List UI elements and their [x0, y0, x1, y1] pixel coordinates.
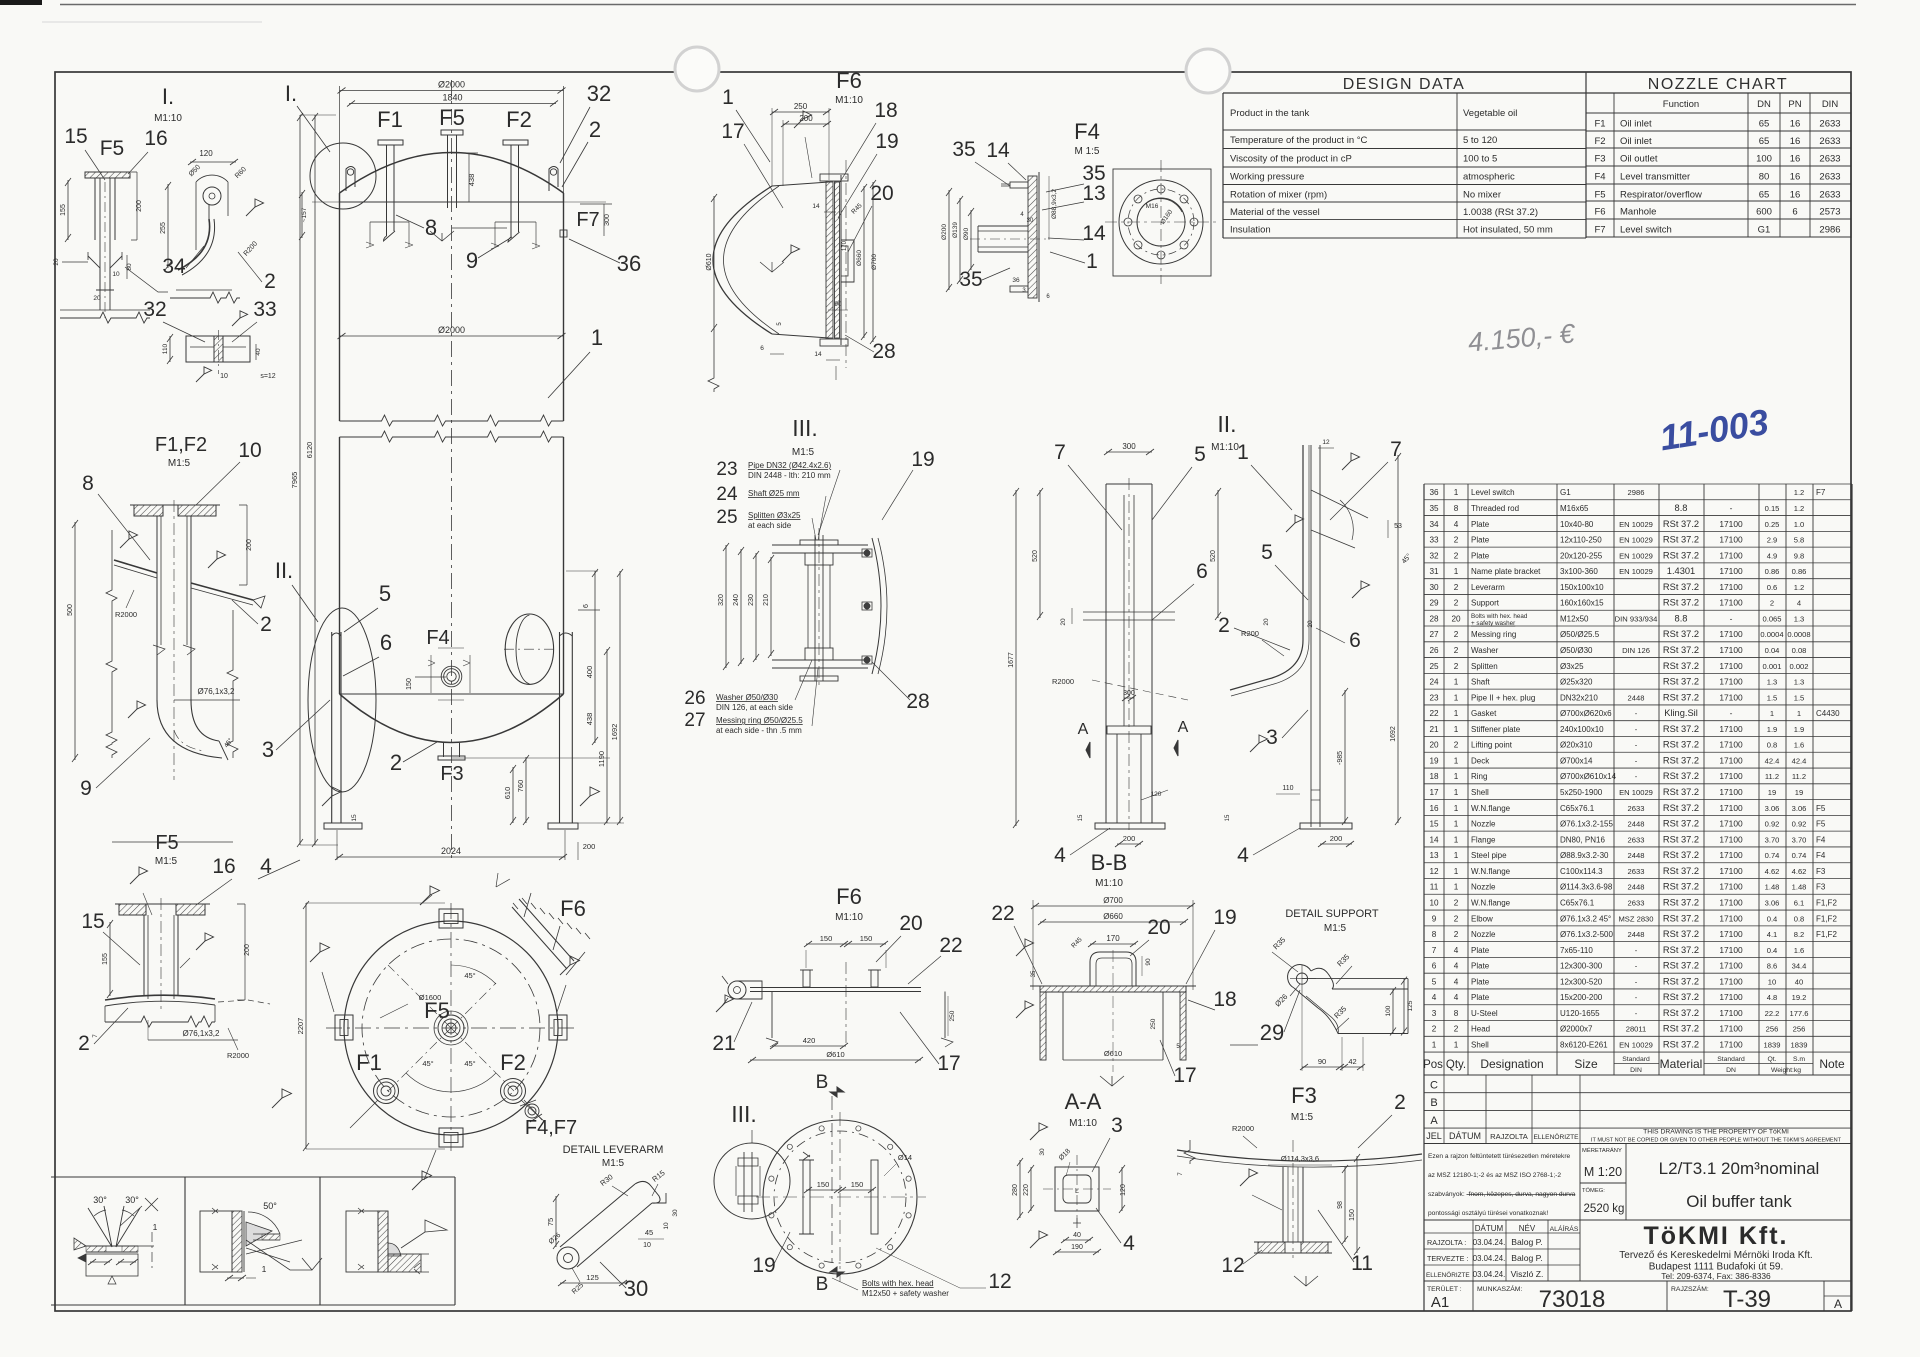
svg-text:7x65-110: 7x65-110 [1560, 946, 1593, 955]
svg-text:22.2: 22.2 [1765, 1009, 1780, 1018]
svg-text:Level transmitter: Level transmitter [1620, 172, 1690, 183]
nozzle F3 bottom [443, 743, 445, 757]
F6 head arc [713, 186, 772, 334]
svg-text:Messing ring Ø50/Ø25.5: Messing ring Ø50/Ø25.5 [716, 716, 803, 725]
svg-text:Plate: Plate [1471, 962, 1490, 971]
svg-text:4.150,- €: 4.150,- € [1467, 318, 1578, 357]
svg-text:2: 2 [264, 270, 276, 293]
nozzle F4 on shell center [447, 672, 456, 681]
top head [340, 153, 564, 194]
svg-text:19: 19 [1429, 756, 1439, 765]
svg-text:Ezen a rajzon feltüntetett tür: Ezen a rajzon feltüntetett türésezetlen … [1428, 1153, 1571, 1160]
svg-text:3: 3 [262, 737, 274, 762]
svg-text:-: - [1635, 756, 1638, 765]
svg-text:03.04.24.: 03.04.24. [1473, 1238, 1506, 1247]
svg-text:240: 240 [733, 594, 740, 606]
svg-text:4.62: 4.62 [1765, 867, 1780, 876]
svg-text:1.48: 1.48 [1765, 883, 1780, 892]
svg-text:17100: 17100 [1719, 913, 1743, 923]
svg-text:I.: I. [162, 84, 174, 109]
svg-text:4: 4 [1237, 844, 1249, 867]
svg-text:L2/T3.1 20m³nominal: L2/T3.1 20m³nominal [1659, 1159, 1820, 1178]
svg-text:90: 90 [1145, 958, 1152, 966]
svg-text:98: 98 [1337, 1201, 1344, 1209]
svg-text:17100: 17100 [1719, 976, 1743, 986]
svg-text:Washer Ø50/Ø30: Washer Ø50/Ø30 [716, 693, 779, 702]
svg-text:17100: 17100 [1719, 692, 1743, 702]
svg-text:20: 20 [1147, 916, 1170, 939]
svg-text:24: 24 [1429, 678, 1439, 687]
svg-text:Ø26: Ø26 [1273, 992, 1289, 1008]
svg-text:1.6: 1.6 [1794, 741, 1805, 750]
III assembly [814, 535, 816, 681]
svg-text:19: 19 [1768, 788, 1776, 797]
svg-text:-: - [1635, 962, 1638, 971]
svg-text:DETAIL SUPPORT: DETAIL SUPPORT [1285, 908, 1379, 920]
svg-text:23: 23 [716, 459, 737, 480]
svg-text:280: 280 [1012, 1184, 1019, 1196]
svg-text:RSt 37.2: RSt 37.2 [1663, 645, 1699, 655]
svg-text:25: 25 [716, 507, 737, 528]
svg-text:1: 1 [1432, 1041, 1437, 1050]
svg-text:03.04.24.: 03.04.24. [1473, 1270, 1506, 1279]
svg-text:R35: R35 [1271, 935, 1287, 951]
F1F2 pipe [156, 516, 158, 700]
svg-text:7965: 7965 [290, 472, 299, 489]
svg-text:73018: 73018 [1539, 1286, 1606, 1313]
svg-text:14: 14 [812, 203, 820, 210]
svg-text:110: 110 [1282, 785, 1293, 792]
svg-text:RSt 37.2: RSt 37.2 [1663, 724, 1699, 734]
svg-text:Level switch: Level switch [1471, 488, 1515, 497]
svg-text:4: 4 [1454, 993, 1459, 1002]
svg-text:8.8: 8.8 [1675, 503, 1688, 513]
svg-text:19: 19 [911, 448, 934, 471]
svg-text:B-B: B-B [1091, 850, 1128, 875]
svg-text:17100: 17100 [1719, 834, 1743, 844]
svg-text:400: 400 [585, 666, 594, 679]
svg-text:Ø610: Ø610 [826, 1050, 844, 1059]
svg-text:Temperature of the product in: Temperature of the product in °C [1230, 135, 1368, 146]
svg-text:3: 3 [1111, 1114, 1123, 1137]
svg-text:150: 150 [1349, 1209, 1356, 1221]
dim Ø2000 top [340, 90, 564, 92]
svg-text:17: 17 [721, 120, 744, 143]
svg-text:-: - [1635, 725, 1638, 734]
svg-text:2633: 2633 [1819, 136, 1840, 147]
svg-text:5: 5 [379, 581, 391, 606]
svg-text:F4: F4 [1074, 119, 1100, 144]
svg-text:ELLENÖRIZTE: ELLENÖRIZTE [1533, 1133, 1579, 1141]
svg-text:5: 5 [1194, 443, 1206, 466]
svg-text:28: 28 [906, 690, 929, 713]
svg-text:Plate: Plate [1471, 946, 1490, 955]
svg-text:Plate: Plate [1471, 977, 1490, 986]
svg-text:5: 5 [1432, 977, 1437, 986]
svg-text:Ø2000: Ø2000 [438, 325, 465, 335]
dim Ø2000 mid [340, 335, 564, 337]
svg-text:15: 15 [64, 125, 87, 148]
svg-text:IT MUST NOT BE COPIED OR GIVEN: IT MUST NOT BE COPIED OR GIVEN TO OTHER … [1591, 1138, 1842, 1144]
svg-text:150: 150 [860, 934, 873, 943]
F4 section [1028, 176, 1037, 298]
svg-text:Ø1600: Ø1600 [419, 993, 442, 1002]
svg-text:300: 300 [1123, 690, 1135, 697]
svg-text:F4,F7: F4,F7 [525, 1117, 577, 1139]
shell walls [339, 193, 341, 421]
A-A dims [1019, 1160, 1021, 1218]
svg-text:210: 210 [763, 594, 770, 606]
svg-text:Ø25x320: Ø25x320 [1560, 678, 1593, 687]
svg-text:250: 250 [1150, 1018, 1157, 1029]
svg-text:15: 15 [1225, 814, 1231, 821]
svg-text:33: 33 [1429, 536, 1439, 545]
svg-text:2986: 2986 [1628, 488, 1645, 497]
svg-text:6120: 6120 [305, 442, 314, 459]
svg-text:RSt 37.2: RSt 37.2 [1663, 692, 1699, 702]
svg-text:1: 1 [262, 1264, 267, 1274]
svg-text:Name plate bracket: Name plate bracket [1471, 567, 1541, 576]
svg-text:75: 75 [546, 1218, 555, 1226]
svg-text:Ø18: Ø18 [1058, 1148, 1072, 1162]
svg-text:11: 11 [1430, 883, 1439, 892]
svg-text:10: 10 [220, 373, 228, 380]
svg-text:1.3: 1.3 [1794, 678, 1805, 687]
svg-text:R15: R15 [650, 1168, 666, 1184]
svg-text:2633: 2633 [1819, 190, 1840, 201]
svg-text:Ring: Ring [1471, 772, 1487, 781]
svg-text:8x6120-E261: 8x6120-E261 [1560, 1041, 1608, 1050]
svg-text:Ø200: Ø200 [941, 224, 948, 240]
svg-text:17100: 17100 [1719, 677, 1743, 687]
svg-text:0.8: 0.8 [1767, 741, 1778, 750]
svg-text:65: 65 [1759, 119, 1770, 130]
svg-text:EN 10029: EN 10029 [1619, 788, 1653, 797]
svg-text:Stiffener plate: Stiffener plate [1471, 725, 1521, 734]
F3 nozzle [1282, 1167, 1284, 1242]
svg-text:s=12: s=12 [260, 373, 275, 380]
svg-text:2: 2 [589, 117, 601, 142]
svg-text:C65x76.1: C65x76.1 [1560, 804, 1595, 813]
svg-text:Ø76.1x3.2-155: Ø76.1x3.2-155 [1560, 820, 1613, 829]
svg-text:10: 10 [238, 439, 261, 462]
svg-text:2633: 2633 [1628, 898, 1645, 907]
svg-text:3: 3 [1022, 288, 1026, 294]
svg-text:10x40-80: 10x40-80 [1560, 520, 1594, 529]
F1F2 head plate slant [114, 560, 157, 573]
svg-text:III.: III. [731, 1101, 757, 1127]
svg-text:M16: M16 [1146, 203, 1159, 210]
svg-text:255: 255 [160, 222, 167, 234]
svg-text:438: 438 [467, 174, 476, 187]
svg-text:17: 17 [937, 1052, 960, 1075]
svg-text:9: 9 [1432, 914, 1437, 923]
svg-text:Flange: Flange [1471, 835, 1496, 844]
F3 flange [1258, 1242, 1285, 1253]
svg-text:2: 2 [260, 613, 272, 636]
svg-text:10: 10 [112, 271, 120, 278]
svg-text:DN80, PN16: DN80, PN16 [1560, 835, 1605, 844]
svg-text:R25: R25 [571, 1282, 585, 1296]
svg-text:Ø90: Ø90 [963, 227, 970, 240]
svg-text:1: 1 [1454, 788, 1459, 797]
svg-text:RSt 37.2: RSt 37.2 [1663, 519, 1699, 529]
svg-text:22: 22 [1429, 709, 1439, 718]
A-A plate [1055, 1167, 1099, 1211]
svg-text:RSt 37.2: RSt 37.2 [1663, 819, 1699, 829]
svg-text:13: 13 [1082, 182, 1105, 205]
svg-text:RSt 37.2: RSt 37.2 [1663, 976, 1699, 986]
left long dims 7965 6120 [299, 115, 301, 845]
svg-text:Splitten: Splitten [1471, 662, 1498, 671]
svg-text:17100: 17100 [1719, 882, 1743, 892]
svg-text:2: 2 [1454, 536, 1459, 545]
svg-text:36: 36 [1012, 277, 1020, 284]
svg-text:DN: DN [1757, 99, 1771, 110]
svg-text:2: 2 [1454, 741, 1459, 750]
svg-text:36: 36 [617, 251, 641, 276]
svg-text:ALÁÍRÁS: ALÁÍRÁS [1550, 1224, 1579, 1233]
svg-text:Ø50/Ø30: Ø50/Ø30 [1560, 646, 1593, 655]
plan view top circle [344, 921, 558, 1135]
svg-text:20: 20 [53, 258, 60, 266]
svg-text:Vegetable oil: Vegetable oil [1463, 108, 1517, 119]
svg-text:4.9: 4.9 [1767, 551, 1778, 560]
svg-text:Ø3x25: Ø3x25 [1560, 662, 1584, 671]
svg-text:15: 15 [351, 814, 358, 822]
svg-text:17100: 17100 [1719, 771, 1743, 781]
svg-text:F5: F5 [1816, 820, 1826, 829]
svg-text:4.8: 4.8 [1767, 993, 1778, 1002]
plan III deck bolt circle [763, 1120, 917, 1274]
svg-text:24: 24 [716, 484, 738, 505]
leg squares [439, 909, 463, 928]
svg-text:1.2: 1.2 [1794, 504, 1805, 513]
svg-text:30: 30 [1039, 1148, 1046, 1156]
svg-text:1: 1 [1454, 820, 1459, 829]
leg leader flags [420, 886, 440, 905]
svg-text:F6: F6 [836, 68, 862, 93]
pipe break [153, 645, 195, 655]
detail III callout circle [714, 1143, 790, 1219]
svg-text:1692: 1692 [610, 724, 619, 741]
svg-text:Ø660: Ø660 [856, 250, 863, 266]
svg-text:F3: F3 [1594, 154, 1605, 165]
svg-text:1839: 1839 [1764, 1041, 1781, 1050]
svg-text:RSt 37.2: RSt 37.2 [1663, 661, 1699, 671]
svg-text:2633: 2633 [1628, 804, 1645, 813]
svg-text:Messing ring: Messing ring [1471, 630, 1516, 639]
svg-text:760: 760 [516, 780, 525, 793]
F5 flange [119, 904, 146, 915]
svg-text:Ø700x14: Ø700x14 [1560, 756, 1593, 765]
svg-text:150: 150 [817, 1180, 830, 1189]
svg-text:250: 250 [794, 102, 808, 111]
left leg [331, 632, 333, 823]
svg-text:DETAIL LEVERARM: DETAIL LEVERARM [563, 1144, 664, 1156]
svg-text:A1: A1 [1431, 1294, 1449, 1311]
svg-text:4: 4 [1020, 212, 1024, 218]
svg-text:DN32x210: DN32x210 [1560, 693, 1598, 702]
F6 deck plate [750, 987, 921, 989]
svg-text:600: 600 [1756, 207, 1772, 218]
svg-text:F6: F6 [560, 896, 586, 921]
svg-text:1: 1 [1454, 678, 1459, 687]
svg-text:F1,F2: F1,F2 [1816, 898, 1837, 907]
design data table [1223, 92, 1586, 94]
svg-text:18: 18 [874, 99, 897, 122]
svg-text:1: 1 [1454, 883, 1459, 892]
svg-text:RAJZOLTA :: RAJZOLTA : [1427, 1238, 1466, 1247]
svg-text:C100x114.3: C100x114.3 [1560, 867, 1603, 876]
svg-text:20: 20 [899, 912, 922, 935]
svg-text:B: B [816, 1072, 829, 1093]
svg-text:45°: 45° [464, 971, 475, 980]
svg-text:125: 125 [1407, 1000, 1414, 1011]
svg-text:30°: 30° [93, 1195, 107, 1205]
svg-text:RSt 37.2: RSt 37.2 [1663, 850, 1699, 860]
svg-text:7: 7 [93, 1034, 99, 1038]
svg-text:6: 6 [1046, 294, 1050, 300]
svg-text:Elbow: Elbow [1471, 914, 1493, 923]
svg-text:Ø660: Ø660 [1103, 912, 1123, 921]
svg-text:17100: 17100 [1719, 598, 1743, 608]
svg-text:320: 320 [718, 594, 725, 606]
svg-text:1: 1 [1086, 250, 1098, 273]
svg-text:230: 230 [748, 594, 755, 606]
svg-text:Note: Note [1819, 1057, 1845, 1071]
svg-text:3: 3 [1266, 726, 1278, 749]
svg-text:W.N.flange: W.N.flange [1471, 804, 1511, 813]
svg-text:Balog P.: Balog P. [1511, 1253, 1542, 1263]
svg-text:F2: F2 [506, 107, 532, 132]
svg-text:45: 45 [645, 1228, 653, 1237]
svg-text:500: 500 [67, 604, 74, 616]
svg-text:14: 14 [986, 139, 1010, 162]
svg-text:1839: 1839 [1791, 1041, 1808, 1050]
svg-text:1190: 1190 [597, 751, 606, 767]
svg-text:-: - [1635, 1009, 1638, 1018]
bottom head [340, 693, 564, 695]
svg-text:Tervező és Kereskedelmi Mérnök: Tervező és Kereskedelmi Mérnöki Iroda Kf… [1619, 1250, 1812, 1261]
svg-text:EN 10029: EN 10029 [1619, 520, 1653, 529]
svg-text:Lifting point: Lifting point [1471, 741, 1513, 750]
svg-text:M1:5: M1:5 [155, 856, 178, 867]
svg-text:160x160x15: 160x160x15 [1560, 599, 1604, 608]
II right top 45 stiffener [1311, 490, 1368, 548]
svg-text:Qty.: Qty. [1446, 1059, 1466, 1071]
svg-text:6: 6 [1792, 207, 1797, 218]
svg-text:0.92: 0.92 [1765, 820, 1780, 829]
svg-text:29: 29 [1260, 1020, 1284, 1045]
svg-text:32: 32 [143, 298, 166, 321]
svg-text:1.0038 (RSt 37.2): 1.0038 (RSt 37.2) [1463, 207, 1538, 218]
svg-text:32: 32 [587, 81, 611, 106]
svg-text:RSt 37.2: RSt 37.2 [1663, 787, 1699, 797]
svg-text:18: 18 [1429, 772, 1439, 781]
svg-text:pontossági osztályú türései vo: pontossági osztályú türései vonatkoznak! [1428, 1210, 1548, 1217]
svg-text:12x300-520: 12x300-520 [1560, 977, 1603, 986]
svg-text:ELLENÖRIZTE: ELLENÖRIZTE [1426, 1271, 1470, 1279]
svg-text:80: 80 [1759, 172, 1770, 183]
svg-text:6.1: 6.1 [1794, 898, 1805, 907]
svg-text:11: 11 [1351, 1252, 1373, 1275]
svg-text:R2000: R2000 [115, 610, 137, 619]
svg-text:Ø76,1x3,2: Ø76,1x3,2 [183, 1029, 220, 1038]
svg-text:2: 2 [390, 750, 402, 775]
svg-text:17: 17 [1429, 788, 1439, 797]
svg-text:atmospheric: atmospheric [1463, 172, 1515, 183]
svg-text:1.9: 1.9 [1794, 725, 1805, 734]
svg-text:2448: 2448 [1628, 930, 1645, 939]
svg-text:4: 4 [260, 855, 272, 878]
svg-text:RSt 37.2: RSt 37.2 [1663, 1040, 1699, 1050]
svg-text:2520 kg: 2520 kg [1584, 1203, 1625, 1215]
svg-text:0.4: 0.4 [1767, 914, 1778, 923]
svg-text:0.08: 0.08 [1792, 646, 1807, 655]
svg-text:-: - [1730, 613, 1733, 623]
svg-text:5: 5 [1261, 541, 1273, 564]
svg-text:9: 9 [466, 248, 478, 273]
svg-text:F4: F4 [1594, 172, 1605, 183]
svg-text:2: 2 [1454, 914, 1459, 923]
svg-text:15: 15 [1078, 814, 1084, 821]
svg-text:2448: 2448 [1628, 883, 1645, 892]
F4 dims left [948, 190, 950, 290]
svg-text:155: 155 [102, 953, 109, 965]
svg-text:12x110-250: 12x110-250 [1560, 536, 1602, 545]
svg-text:20: 20 [870, 182, 893, 205]
leverarm dims [555, 1196, 557, 1247]
svg-text:Weight:kg: Weight:kg [1771, 1067, 1801, 1074]
svg-text:1: 1 [1454, 835, 1459, 844]
svg-text:F1: F1 [356, 1050, 382, 1075]
svg-text:M1:10: M1:10 [835, 95, 863, 106]
svg-text:M1:10: M1:10 [1069, 1118, 1097, 1129]
svg-text:18: 18 [1213, 988, 1236, 1011]
svg-text:19: 19 [752, 1254, 775, 1277]
svg-text:TERVEZTE :: TERVEZTE : [1427, 1254, 1468, 1263]
svg-text:17100: 17100 [1719, 945, 1743, 955]
svg-text:F5: F5 [1816, 804, 1826, 813]
svg-text:42: 42 [1348, 1057, 1356, 1066]
svg-text:szabványok: -fnom, közepes, du: szabványok: -fnom, közepes, durva, nagyo… [1428, 1191, 1576, 1198]
svg-text:DIN: DIN [1822, 99, 1839, 110]
svg-text:17100: 17100 [1719, 992, 1743, 1002]
svg-text:2: 2 [1454, 898, 1459, 907]
svg-text:0.86: 0.86 [1765, 567, 1780, 576]
svg-text:17100: 17100 [1719, 803, 1743, 813]
svg-text:3.70: 3.70 [1765, 835, 1780, 844]
svg-text:4: 4 [1123, 1232, 1135, 1255]
svg-text:45°: 45° [1400, 552, 1413, 565]
svg-text:Working pressure: Working pressure [1230, 172, 1304, 183]
F6 channel bracket [841, 240, 854, 282]
svg-text:150: 150 [406, 678, 413, 690]
svg-text:Oil buffer tank: Oil buffer tank [1686, 1192, 1792, 1211]
svg-text:1.4301: 1.4301 [1667, 566, 1695, 576]
svg-text:C65x76.1: C65x76.1 [1560, 898, 1595, 907]
svg-text:Nozzle: Nozzle [1471, 883, 1496, 892]
svg-text:Ø20x310: Ø20x310 [1560, 741, 1593, 750]
svg-text:200: 200 [246, 539, 253, 551]
bottom dim 2024 [337, 856, 565, 858]
svg-text:17100: 17100 [1719, 629, 1743, 639]
svg-text:F3: F3 [440, 763, 463, 785]
svg-text:6: 6 [583, 604, 590, 608]
svg-text:1.48: 1.48 [1792, 883, 1807, 892]
II right column [1302, 445, 1304, 640]
